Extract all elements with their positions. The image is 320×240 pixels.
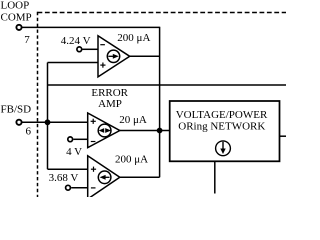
svg-text:200 μA: 200 μA xyxy=(117,32,150,44)
svg-text:20 μA: 20 μA xyxy=(119,114,147,126)
svg-text:VOLTAGE/POWER: VOLTAGE/POWER xyxy=(176,109,268,121)
svg-text:4 V: 4 V xyxy=(66,146,82,158)
svg-text:7: 7 xyxy=(24,34,30,46)
svg-text:ORing NETWORK: ORing NETWORK xyxy=(178,121,265,133)
svg-text:AMP: AMP xyxy=(98,98,122,110)
svg-text:FB/SD: FB/SD xyxy=(1,103,32,115)
svg-text:200 μA: 200 μA xyxy=(115,154,148,166)
svg-text:LOOP: LOOP xyxy=(1,0,30,11)
svg-text:6: 6 xyxy=(26,126,32,138)
svg-text:3.68 V: 3.68 V xyxy=(49,172,79,184)
svg-text:4.24 V: 4.24 V xyxy=(61,35,91,47)
svg-text:COMP: COMP xyxy=(1,11,32,23)
